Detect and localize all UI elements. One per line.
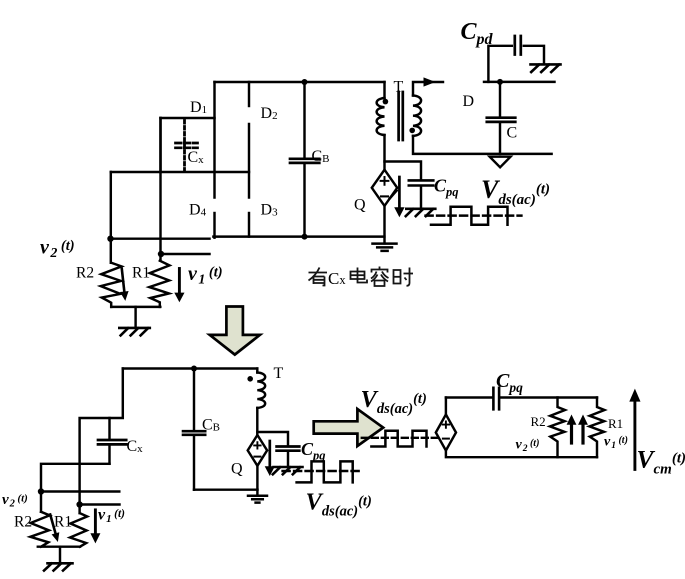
svg-text:Vds(ac)(t): Vds(ac)(t)	[481, 175, 550, 208]
ground under Q (bottom ckt)	[248, 496, 267, 503]
svg-text:D: D	[463, 93, 475, 110]
wire mid rail	[111, 171, 249, 173]
resistor R1 (bottom ckt)	[70, 513, 87, 547]
capacitor CB leg upper	[303, 82, 305, 158]
wire Cx box top	[161, 117, 215, 119]
glyph 有	[309, 268, 328, 286]
wire Cx branch upper	[108, 418, 110, 439]
dependent source Q diamond (bottom ckt)	[248, 435, 267, 466]
svg-text:D4: D4	[189, 202, 207, 219]
wire Cx to v2 jog	[41, 464, 110, 512]
capacitor Cpq lower lead	[420, 187, 422, 209]
svg-text:CB: CB	[202, 417, 220, 434]
wire Cx box left	[159, 118, 161, 172]
ground (chassis) under R1 R2	[119, 328, 150, 336]
arrow v1	[178, 269, 181, 295]
wire top rail into transformer primary	[383, 82, 385, 98]
square wave Vds (bottom mid)	[297, 461, 353, 482]
arrow v1 (bottom ckt)	[94, 510, 97, 534]
arrow beside Q	[398, 177, 401, 210]
dashed centerline (bottom mid)	[283, 470, 363, 473]
transformer T secondary winding	[413, 96, 421, 136]
svg-text:v1(t): v1(t)	[98, 507, 125, 526]
wire bridge left leg upper	[213, 82, 215, 198]
arrow through R2	[122, 269, 125, 292]
svg-text:Vds(ac)(t): Vds(ac)(t)	[306, 489, 372, 520]
wire v2 vertical to R2	[110, 172, 112, 263]
transformer T winding (bottom ckt)	[257, 373, 265, 408]
capacitor Cx dotted lead	[183, 121, 186, 171]
resistor R1 (right ckt)	[590, 398, 605, 458]
Q plus sign	[381, 177, 389, 185]
Q plus (bottom ckt)	[254, 442, 260, 448]
wire bottom rail (bottom ckt)	[194, 488, 258, 490]
square wave (right)	[371, 431, 426, 447]
ground (chassis) bottom ckt	[44, 563, 73, 570]
resistor R1	[149, 261, 169, 307]
big hollow down arrow	[210, 307, 260, 355]
plus (right ckt)	[443, 421, 449, 427]
svg-text:R1: R1	[54, 514, 72, 531]
svg-text:R2: R2	[14, 514, 32, 531]
capacitor CB plates	[290, 159, 319, 163]
wire Cpq branch	[385, 162, 422, 180]
dependent source Q (diamond)	[372, 170, 397, 206]
wire R1 vertical	[159, 118, 161, 261]
svg-text:Cpq: Cpq	[434, 176, 459, 200]
resistor R2	[101, 263, 122, 307]
wire Cx branch lower	[108, 446, 110, 464]
dashed centerline	[426, 214, 522, 217]
wire v1 rail (bottom ckt)	[80, 503, 120, 505]
glyph 时	[394, 268, 414, 286]
resistor R2 (bottom ckt)	[30, 512, 49, 547]
svg-text:Q: Q	[231, 461, 243, 478]
current arrow 1 up	[570, 424, 573, 443]
wire node line right of diode D	[484, 81, 555, 83]
wire Q bottom	[256, 466, 258, 496]
wire bottom-circuit top rail	[123, 367, 257, 369]
wire D2-D3 leg middle	[248, 124, 250, 198]
Q minus sign	[381, 195, 388, 197]
svg-text:Cpq: Cpq	[301, 439, 326, 463]
node v2	[107, 236, 113, 242]
Vcm arrow	[633, 401, 636, 469]
glyph 容	[371, 267, 389, 287]
dashed centerline (right)	[362, 437, 438, 439]
wire Cpq branch (bottom ckt)	[257, 432, 288, 445]
svg-text:Cx: Cx	[127, 438, 144, 455]
capacitor C leg lower	[499, 124, 501, 154]
arrow beside Q (bottom ckt)	[268, 441, 271, 468]
svg-text:T: T	[394, 79, 404, 96]
capacitor Cpq plates (bottom ckt)	[277, 447, 300, 451]
svg-text:D2: D2	[261, 105, 278, 122]
svg-text:R2: R2	[531, 414, 546, 429]
svg-text:D3: D3	[261, 202, 279, 219]
square wave Vds top	[431, 207, 508, 225]
capacitor Cpd plates	[515, 36, 521, 55]
wire v2 rail (bottom ckt)	[41, 490, 119, 492]
wire v2 rail	[111, 237, 210, 239]
svg-text:Vcm(t): Vcm(t)	[637, 445, 685, 478]
svg-text:v1(t): v1(t)	[604, 435, 628, 452]
wire bridge bottom rail	[213, 235, 384, 237]
arrow through R2 (bottom ckt)	[50, 515, 55, 534]
node top-rail/CB junction	[302, 79, 308, 85]
node top rail / CB	[191, 366, 197, 372]
capacitor CB leg lower	[303, 164, 305, 237]
node bottom-rail/CB junction	[302, 234, 308, 240]
svg-text:Cx: Cx	[188, 149, 205, 166]
transformer T primary winding	[377, 98, 385, 135]
svg-text:Cx: Cx	[328, 269, 346, 288]
capacitor CB plates (bottom ckt)	[183, 431, 205, 435]
wire ground stem	[134, 307, 136, 328]
ground (chassis) for Cpd	[531, 64, 561, 72]
svg-text:R1: R1	[608, 416, 623, 431]
dependent source diamond (right ckt)	[436, 415, 456, 451]
svg-text:Vds(ac)(t): Vds(ac)(t)	[361, 386, 427, 417]
svg-text:C: C	[507, 125, 518, 142]
node v2 (bottom ckt)	[38, 488, 44, 494]
capacitor Cx plates (bottom ckt)	[98, 440, 126, 444]
wire Q bottom to ground	[383, 206, 385, 244]
svg-text:R1: R1	[132, 265, 150, 282]
capacitor Cpd loop right	[524, 46, 544, 64]
wire left leg with jog	[80, 369, 123, 514]
svg-text:CB: CB	[312, 148, 330, 165]
diode D2 leg upper segment	[248, 82, 250, 106]
capacitor Cpd loop left+top	[488, 46, 511, 82]
glyph 电	[351, 268, 368, 283]
capacitor CB lower (bottom ckt)	[193, 436, 195, 490]
svg-text:Cpq: Cpq	[496, 370, 523, 395]
svg-text:v2(t): v2(t)	[2, 492, 28, 510]
resistor R2 (right ckt)	[550, 398, 565, 458]
capacitor Cx dashed plates	[176, 143, 198, 148]
node v1 (bottom ckt)	[76, 501, 82, 507]
wire coil to Q	[256, 408, 258, 435]
capacitor C plates	[487, 118, 516, 122]
current arrow 2 up	[581, 424, 584, 443]
ground (chassis) for Cpq (bottom ckt)	[273, 467, 303, 474]
diode D4 (gap in left leg) lower segment	[213, 213, 215, 238]
transformer dot (bottom ckt)	[247, 376, 253, 382]
wire ground stem (bottom ckt)	[59, 547, 61, 563]
transformer core	[399, 92, 403, 140]
ground (chassis) for Cpq	[406, 209, 436, 216]
wire secondary bottom rail	[413, 136, 552, 154]
capacitor Cpq plates	[409, 180, 434, 185]
big hollow right arrow	[314, 409, 384, 446]
ground under Q	[373, 244, 397, 251]
svg-text:Cpd: Cpd	[461, 19, 494, 48]
capacitor Cpq lower lead (bottom ckt)	[287, 452, 289, 467]
capacitor CB branch (bottom ckt)	[193, 369, 195, 431]
wire diamond to top rail	[445, 398, 447, 415]
svg-text:R2: R2	[76, 265, 94, 282]
wire rail to coil	[256, 369, 258, 373]
capacitor C leg upper	[499, 82, 501, 116]
minus (right ckt)	[443, 438, 449, 440]
svg-text:v2(t): v2(t)	[40, 237, 75, 262]
svg-text:D1: D1	[190, 99, 207, 116]
wire top rail	[215, 81, 385, 83]
svg-text:v2(t): v2(t)	[516, 438, 540, 455]
caption 有Cx电容时 (drawn glyphs)	[309, 267, 414, 287]
svg-text:Q: Q	[354, 197, 366, 214]
svg-text:T: T	[274, 365, 284, 382]
transformer secondary dot	[409, 128, 415, 134]
capacitor Cpq plates (right ckt)	[493, 388, 499, 410]
ground triangle (open)	[490, 157, 511, 168]
wire v1 rail	[161, 253, 210, 255]
svg-text:v1(t): v1(t)	[188, 263, 223, 288]
wire primary bottom to Q	[383, 135, 385, 170]
node D/C junction	[497, 79, 503, 85]
wire top rail left segment	[446, 396, 492, 398]
node v1	[158, 251, 164, 257]
wire bottom rail (right ckt)	[446, 451, 597, 458]
transformer primary dot	[383, 99, 389, 105]
wire secondary top with current arrow	[413, 82, 443, 96]
wire R bottoms join	[111, 306, 160, 308]
wire R bottoms join (bottom ckt)	[38, 545, 80, 547]
Q minus (bottom ckt)	[254, 456, 260, 458]
wire top rail right segment	[501, 396, 597, 398]
diode D3 lower segment	[248, 213, 250, 237]
